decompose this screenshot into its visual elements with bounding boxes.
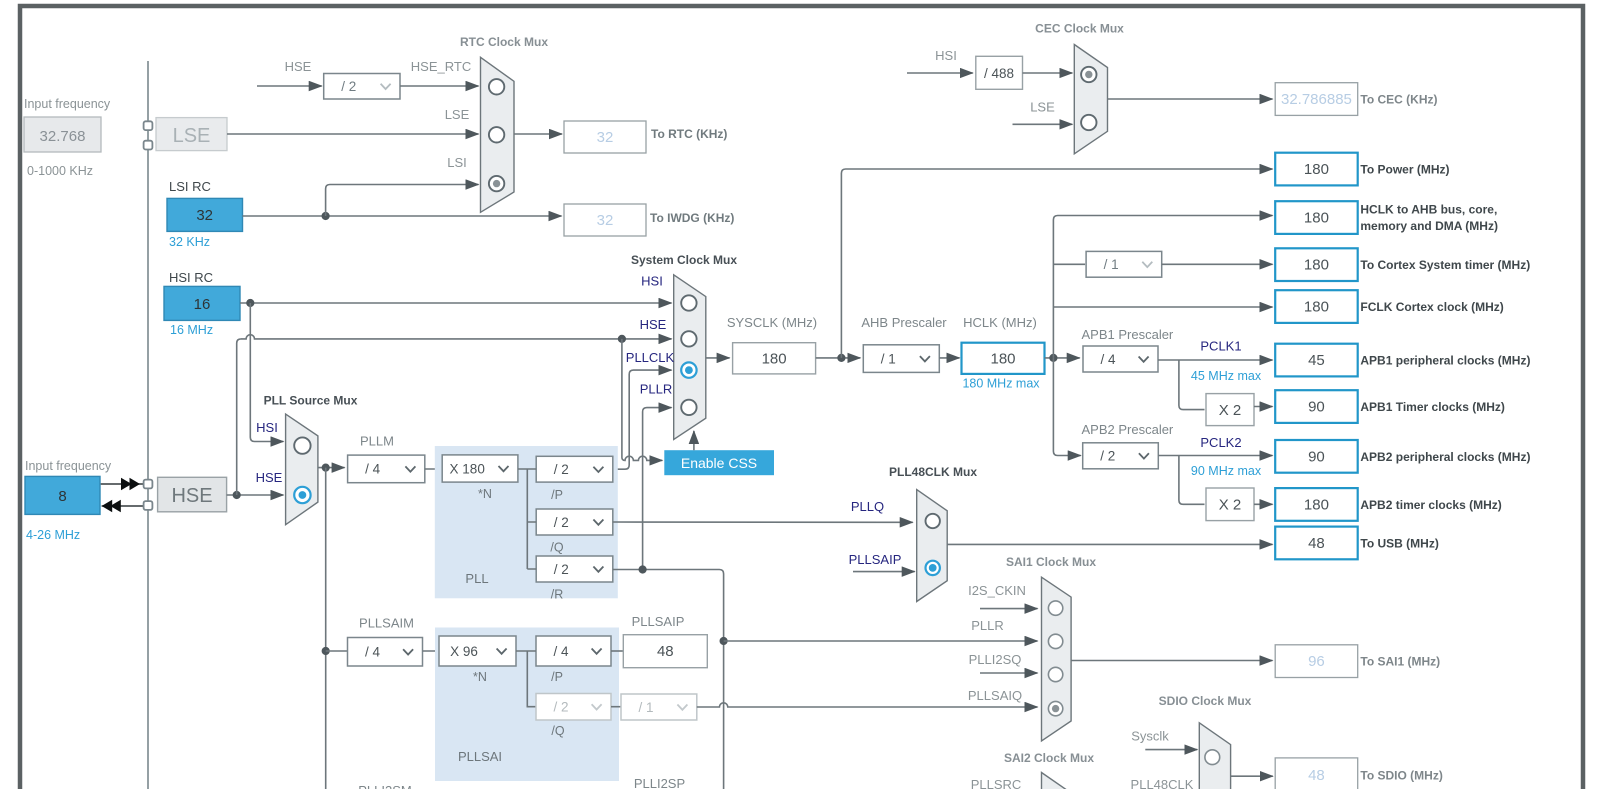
svg-text:32: 32 [196, 207, 213, 224]
svg-text:48: 48 [1308, 535, 1325, 552]
svg-text:PLLSAIQ: PLLSAIQ [968, 688, 1022, 703]
svg-text:LSI: LSI [447, 155, 467, 170]
svg-text:LSI RC: LSI RC [169, 179, 211, 194]
svg-text:SDIO Clock Mux: SDIO Clock Mux [1159, 694, 1252, 708]
svg-text:48: 48 [1308, 767, 1325, 784]
svg-text:PLLR: PLLR [971, 618, 1004, 633]
svg-text:System Clock Mux: System Clock Mux [631, 253, 737, 267]
svg-text:/ 4: / 4 [365, 645, 381, 660]
svg-text:HCLK (MHz): HCLK (MHz) [963, 315, 1037, 330]
svg-text:X 180: X 180 [450, 461, 485, 476]
svg-text:PLL48CLK: PLL48CLK [1131, 777, 1194, 789]
svg-text:APB2 timer clocks (MHz): APB2 timer clocks (MHz) [1360, 498, 1501, 512]
svg-text:16: 16 [194, 296, 211, 313]
svg-text:To Cortex System timer (MHz): To Cortex System timer (MHz) [1360, 258, 1530, 272]
svg-text:CEC Clock Mux: CEC Clock Mux [1035, 22, 1124, 36]
svg-text:FCLK Cortex clock (MHz): FCLK Cortex clock (MHz) [1360, 300, 1503, 314]
svg-text:SYSCLK (MHz): SYSCLK (MHz) [727, 315, 817, 330]
svg-text:PCLK1: PCLK1 [1200, 339, 1241, 354]
svg-text:PLLQ: PLLQ [851, 499, 884, 514]
svg-text:180: 180 [1304, 161, 1329, 178]
svg-text:APB1 peripheral clocks (MHz): APB1 peripheral clocks (MHz) [1360, 354, 1530, 368]
svg-text:32.786885: 32.786885 [1281, 91, 1352, 108]
svg-text:AHB Prescaler: AHB Prescaler [861, 315, 947, 330]
svg-text:/ 488: / 488 [984, 66, 1014, 81]
svg-text:90: 90 [1308, 399, 1325, 416]
svg-text:HSE: HSE [640, 317, 667, 332]
svg-text:X 2: X 2 [1219, 402, 1242, 419]
svg-text:HCLK to AHB bus, core,: HCLK to AHB bus, core, [1360, 203, 1497, 217]
svg-text:/ 4: / 4 [1100, 352, 1116, 367]
svg-text:Input frequency: Input frequency [24, 97, 111, 111]
svg-text:/P: /P [551, 670, 563, 684]
svg-text:/ 1: / 1 [881, 351, 896, 366]
svg-text:Sysclk: Sysclk [1131, 729, 1169, 744]
svg-text:PLLI2SQ: PLLI2SQ [969, 652, 1022, 667]
svg-text:PLLR: PLLR [640, 381, 673, 396]
svg-text:*N: *N [473, 670, 487, 684]
svg-text:LSE: LSE [445, 107, 470, 122]
svg-text:90 MHz max: 90 MHz max [1191, 464, 1262, 478]
svg-text:PLLSAI: PLLSAI [458, 749, 502, 764]
svg-text:180: 180 [1304, 299, 1329, 316]
svg-text:16 MHz: 16 MHz [170, 323, 213, 337]
svg-text:/P: /P [551, 488, 563, 502]
svg-text:HSI RC: HSI RC [169, 270, 213, 285]
svg-text:PCLK2: PCLK2 [1200, 435, 1241, 450]
svg-text:PLLSAIP: PLLSAIP [849, 552, 902, 567]
svg-text:*N: *N [478, 487, 492, 501]
svg-text:APB2 peripheral clocks (MHz): APB2 peripheral clocks (MHz) [1360, 450, 1530, 464]
svg-text:96: 96 [1308, 653, 1325, 670]
svg-text:180: 180 [990, 350, 1015, 367]
svg-text:32: 32 [597, 212, 614, 229]
svg-text:/ 2: / 2 [554, 562, 569, 577]
svg-text:PLL48CLK Mux: PLL48CLK Mux [889, 465, 977, 479]
svg-text:PLL: PLL [465, 571, 488, 586]
svg-text:8: 8 [58, 488, 66, 505]
svg-text:90: 90 [1308, 448, 1325, 465]
svg-text:32 KHz: 32 KHz [169, 235, 210, 249]
svg-text:PLLM: PLLM [360, 434, 394, 449]
svg-text:To RTC (KHz): To RTC (KHz) [651, 127, 727, 141]
svg-text:/ 1: / 1 [1104, 257, 1119, 272]
svg-text:180: 180 [1304, 210, 1329, 227]
svg-text:I2S_CKIN: I2S_CKIN [968, 583, 1026, 598]
svg-text:4-26 MHz: 4-26 MHz [26, 528, 80, 542]
svg-text:X 96: X 96 [450, 644, 478, 659]
svg-text:PLLSAIP: PLLSAIP [632, 614, 685, 629]
svg-text:/ 2: / 2 [554, 515, 569, 530]
svg-text:LSE: LSE [1030, 99, 1055, 114]
svg-text:45 MHz max: 45 MHz max [1191, 369, 1262, 383]
svg-text:SAI1 Clock Mux: SAI1 Clock Mux [1006, 555, 1096, 569]
svg-text:Input frequency: Input frequency [25, 459, 112, 473]
svg-text:48: 48 [657, 643, 674, 660]
svg-text:SAI2 Clock Mux: SAI2 Clock Mux [1004, 751, 1094, 765]
svg-text:32: 32 [597, 129, 614, 146]
svg-text:/R: /R [551, 587, 564, 601]
svg-text:HSI: HSI [256, 420, 278, 435]
svg-text:HSI: HSI [935, 48, 957, 63]
svg-text:HSE: HSE [256, 470, 283, 485]
svg-text:/Q: /Q [550, 540, 563, 554]
svg-text:45: 45 [1308, 352, 1325, 369]
svg-text:memory and DMA (MHz): memory and DMA (MHz) [1360, 219, 1498, 233]
svg-text:To SDIO (MHz): To SDIO (MHz) [1360, 768, 1442, 782]
svg-text:HSE_RTC: HSE_RTC [411, 59, 471, 74]
svg-text:HSE: HSE [171, 485, 212, 507]
svg-text:/ 2: / 2 [553, 700, 568, 715]
svg-text:APB1 Prescaler: APB1 Prescaler [1082, 327, 1174, 342]
svg-text:PLL Source Mux: PLL Source Mux [264, 394, 358, 408]
svg-text:PLLI2SP: PLLI2SP [634, 776, 685, 789]
svg-text:/ 4: / 4 [553, 644, 569, 659]
svg-text:180: 180 [1304, 496, 1329, 513]
svg-text:PLLSAIM: PLLSAIM [359, 616, 414, 631]
svg-text:APB2 Prescaler: APB2 Prescaler [1082, 422, 1174, 437]
svg-text:PLLCLK: PLLCLK [626, 350, 675, 365]
svg-text:180 MHz max: 180 MHz max [962, 377, 1040, 391]
svg-text:To Power (MHz): To Power (MHz) [1360, 163, 1449, 177]
svg-text:/Q: /Q [551, 724, 564, 738]
svg-text:/ 2: / 2 [1100, 449, 1115, 464]
svg-text:To SAI1 (MHz): To SAI1 (MHz) [1360, 655, 1440, 669]
svg-text:To CEC (KHz): To CEC (KHz) [1360, 93, 1437, 107]
svg-text:HSE: HSE [285, 59, 312, 74]
svg-text:180: 180 [1304, 257, 1329, 274]
svg-text:PLLI2SM: PLLI2SM [358, 783, 411, 789]
svg-text:/ 4: / 4 [365, 462, 381, 477]
svg-text:/ 1: / 1 [638, 700, 653, 715]
svg-text:X 2: X 2 [1219, 497, 1242, 514]
svg-text:To IWDG (KHz): To IWDG (KHz) [650, 211, 734, 225]
svg-text:32.768: 32.768 [40, 128, 86, 145]
svg-text:/ 2: / 2 [554, 462, 569, 477]
svg-text:RTC Clock Mux: RTC Clock Mux [460, 35, 548, 49]
svg-text:/ 2: / 2 [341, 79, 356, 94]
svg-text:0-1000 KHz: 0-1000 KHz [27, 164, 93, 178]
svg-text:HSI: HSI [641, 274, 663, 289]
svg-text:APB1 Timer clocks (MHz): APB1 Timer clocks (MHz) [1360, 400, 1505, 414]
svg-text:To USB (MHz): To USB (MHz) [1360, 536, 1438, 550]
svg-text:PLLSRC: PLLSRC [971, 777, 1022, 789]
svg-text:180: 180 [762, 350, 787, 367]
svg-text:Enable CSS: Enable CSS [681, 455, 757, 471]
svg-text:LSE: LSE [173, 125, 211, 147]
